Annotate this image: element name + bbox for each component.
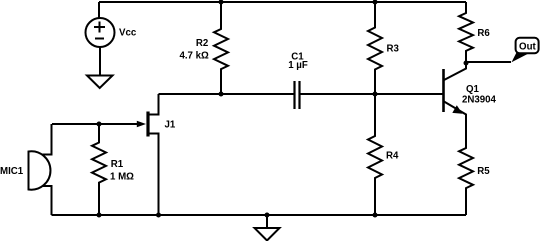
node R1 bottom bbox=[97, 213, 102, 218]
resistor R4 bbox=[368, 94, 399, 215]
svg-text:Q1: Q1 bbox=[466, 84, 480, 95]
svg-text:R6: R6 bbox=[477, 28, 490, 39]
wire bottom rail bbox=[52, 214, 467, 216]
svg-text:Vcc: Vcc bbox=[119, 28, 137, 39]
svg-text:R2: R2 bbox=[196, 38, 208, 49]
resistor R1 bbox=[92, 124, 134, 215]
svg-text:R1: R1 bbox=[111, 159, 124, 170]
microphone MIC1 bbox=[0, 124, 52, 215]
node collector/R6/out bbox=[464, 61, 469, 66]
wire Vcc to ground bbox=[99, 47, 101, 76]
node R1 top bbox=[97, 122, 102, 127]
wire Vcc top stub bbox=[98, 2, 100, 18]
wire out bbox=[466, 61, 511, 63]
wire ground stub bbox=[266, 215, 268, 228]
svg-text:Out: Out bbox=[519, 42, 536, 53]
transistor J1 (JFET) bbox=[148, 94, 176, 215]
svg-text:J1: J1 bbox=[165, 120, 176, 131]
transistor Q1 bbox=[444, 63, 497, 118]
node R4 bottom bbox=[373, 213, 378, 218]
wire mid rail right (C1 to Q1 base) bbox=[301, 93, 443, 95]
ground (under Vcc) bbox=[87, 76, 113, 89]
svg-text:R5: R5 bbox=[477, 166, 490, 177]
out flag pointer bbox=[512, 52, 530, 63]
svg-text:R4: R4 bbox=[386, 151, 399, 162]
gate arrow bbox=[137, 121, 146, 127]
node JFET source bottom bbox=[156, 213, 161, 218]
resistor R6 bbox=[459, 2, 490, 63]
node R2 top bbox=[219, 0, 224, 5]
out flag box bbox=[516, 38, 539, 53]
voltage source Vcc bbox=[86, 18, 137, 47]
resistor R2 bbox=[179, 2, 228, 94]
svg-text:MIC1: MIC1 bbox=[0, 166, 24, 177]
svg-text:2N3904: 2N3904 bbox=[462, 94, 497, 105]
wire top rail bbox=[99, 1, 466, 3]
node R3 top bbox=[373, 0, 378, 5]
svg-text:1 MΩ: 1 MΩ bbox=[110, 172, 134, 183]
node R3/R4 mid bbox=[373, 92, 378, 97]
ground (bottom center) bbox=[255, 228, 280, 241]
resistor R5 bbox=[459, 117, 490, 215]
svg-text:1 µF: 1 µF bbox=[288, 60, 308, 71]
resistor R3 bbox=[368, 2, 399, 94]
capacitor C1 bbox=[288, 52, 308, 109]
node R2 bottom bbox=[219, 92, 224, 97]
node ground bottom bbox=[265, 213, 270, 218]
svg-text:4.7 kΩ: 4.7 kΩ bbox=[179, 51, 209, 62]
wire gate bbox=[52, 123, 139, 125]
svg-text:R3: R3 bbox=[387, 44, 400, 55]
wire mid rail left (JFET drain to C1) bbox=[159, 93, 294, 95]
